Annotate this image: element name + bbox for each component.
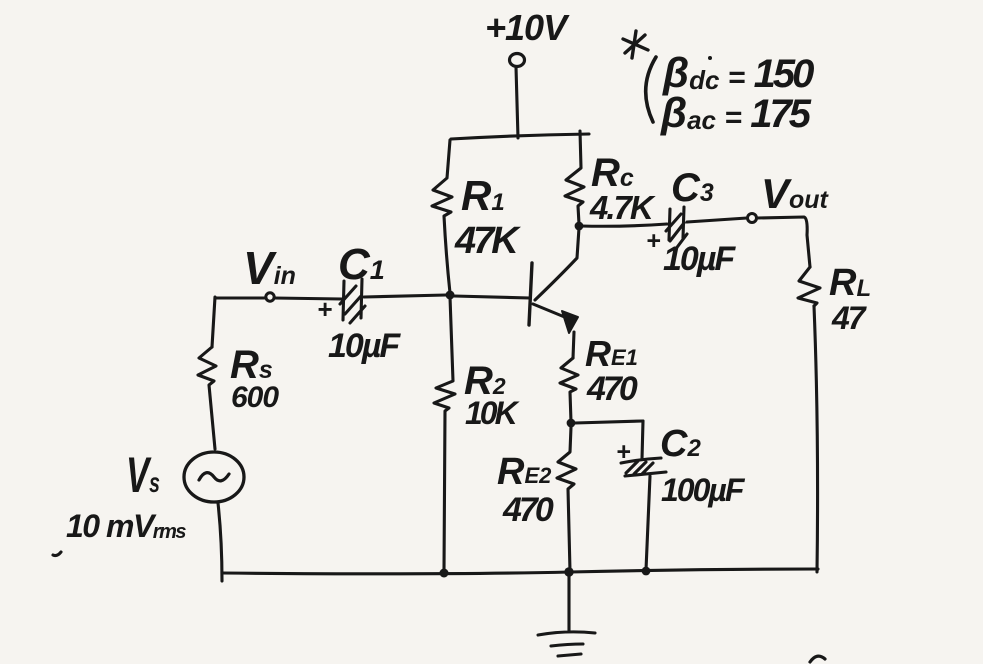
wire emitter to RE1 — [573, 332, 574, 358]
svg-text:βac = 175: βac = 175 — [660, 89, 812, 136]
resistor R2 — [434, 297, 455, 570]
wire C3 to Vout node — [687, 218, 747, 222]
node Vin terminal — [266, 293, 274, 301]
transistor emitter arrow — [562, 311, 578, 333]
svg-text:RE1: RE1 — [585, 333, 638, 374]
wire left vertical top — [212, 297, 215, 347]
stray pen mark bottom right — [810, 656, 825, 662]
resistor RL — [798, 267, 820, 306]
svg-text:C1: C1 — [338, 240, 385, 289]
wire RL to bottom right corner — [814, 306, 818, 572]
wire C2 top lead — [642, 421, 643, 459]
svg-text:+: + — [616, 438, 631, 466]
note parenthesis — [646, 57, 656, 122]
svg-text:Vin: Vin — [243, 242, 296, 294]
svg-text:+10V: +10V — [485, 7, 570, 48]
svg-text:47: 47 — [831, 300, 868, 336]
capacitor C3 — [666, 207, 687, 250]
svg-text:RL: RL — [829, 262, 871, 304]
svg-text:47K: 47K — [454, 220, 521, 262]
svg-text:10µF: 10µF — [663, 240, 736, 278]
svg-text:Vs: Vs — [126, 447, 160, 503]
node bottom rail R2 — [440, 569, 449, 578]
wire collector node to C3 — [581, 224, 667, 226]
svg-text:10K: 10K — [465, 395, 521, 431]
svg-text:+: + — [646, 227, 661, 255]
node emitter resistor junction — [567, 419, 576, 428]
stray pen mark left — [53, 552, 61, 556]
transistor collector lead — [535, 228, 579, 300]
wire C2 bottom lead — [646, 476, 650, 570]
capacitor C2 — [621, 458, 666, 476]
resistor RE2 — [557, 427, 576, 571]
wire node to C2 — [575, 421, 643, 423]
transistor Q1 base bar — [529, 263, 532, 325]
node bottom rail C2 — [642, 567, 651, 576]
svg-text:C2: C2 — [660, 423, 701, 465]
note asterisk — [623, 31, 648, 58]
resistor R1 — [432, 140, 452, 293]
capacitor C1 — [340, 279, 365, 323]
svg-text:10 mVrms: 10 mVrms — [66, 508, 186, 544]
svg-text:600: 600 — [231, 381, 279, 414]
resistor RE1 — [560, 358, 578, 422]
wire bottom rail — [222, 569, 818, 574]
source Vs sine symbol — [199, 473, 229, 481]
resistor Rc — [565, 131, 584, 224]
wire Vin to C1 — [274, 298, 342, 299]
wire C1 to base node — [364, 295, 446, 297]
svg-text:100µF: 100µF — [661, 472, 746, 508]
resistor Rs — [198, 347, 216, 449]
stray pen dot near note — [708, 56, 712, 60]
svg-text:Vout: Vout — [761, 170, 830, 217]
node bottom rail emitter — [564, 567, 573, 576]
svg-text:4.7K: 4.7K — [589, 189, 656, 226]
node base junction — [446, 291, 455, 300]
node collector junction — [575, 222, 584, 231]
transistor emitter lead — [533, 304, 567, 318]
wire Vs to bottom rail — [218, 503, 222, 581]
svg-text:470: 470 — [502, 491, 554, 529]
wire base node to transistor — [454, 296, 530, 298]
wire supply terminal to rail — [516, 67, 518, 138]
node Vout terminal — [748, 214, 757, 223]
+10V terminal — [510, 54, 525, 67]
svg-text:10µF: 10µF — [328, 327, 401, 365]
svg-text:C3: C3 — [671, 166, 714, 210]
ground — [538, 576, 595, 656]
svg-text:470: 470 — [586, 370, 638, 408]
wire top rail — [451, 134, 589, 139]
wire Vout to RL — [757, 217, 810, 267]
wire left corner to Vin — [215, 296, 266, 299]
svg-text:R1: R1 — [461, 172, 505, 219]
source Vs circle — [184, 452, 244, 502]
svg-text:RE2: RE2 — [497, 451, 552, 493]
